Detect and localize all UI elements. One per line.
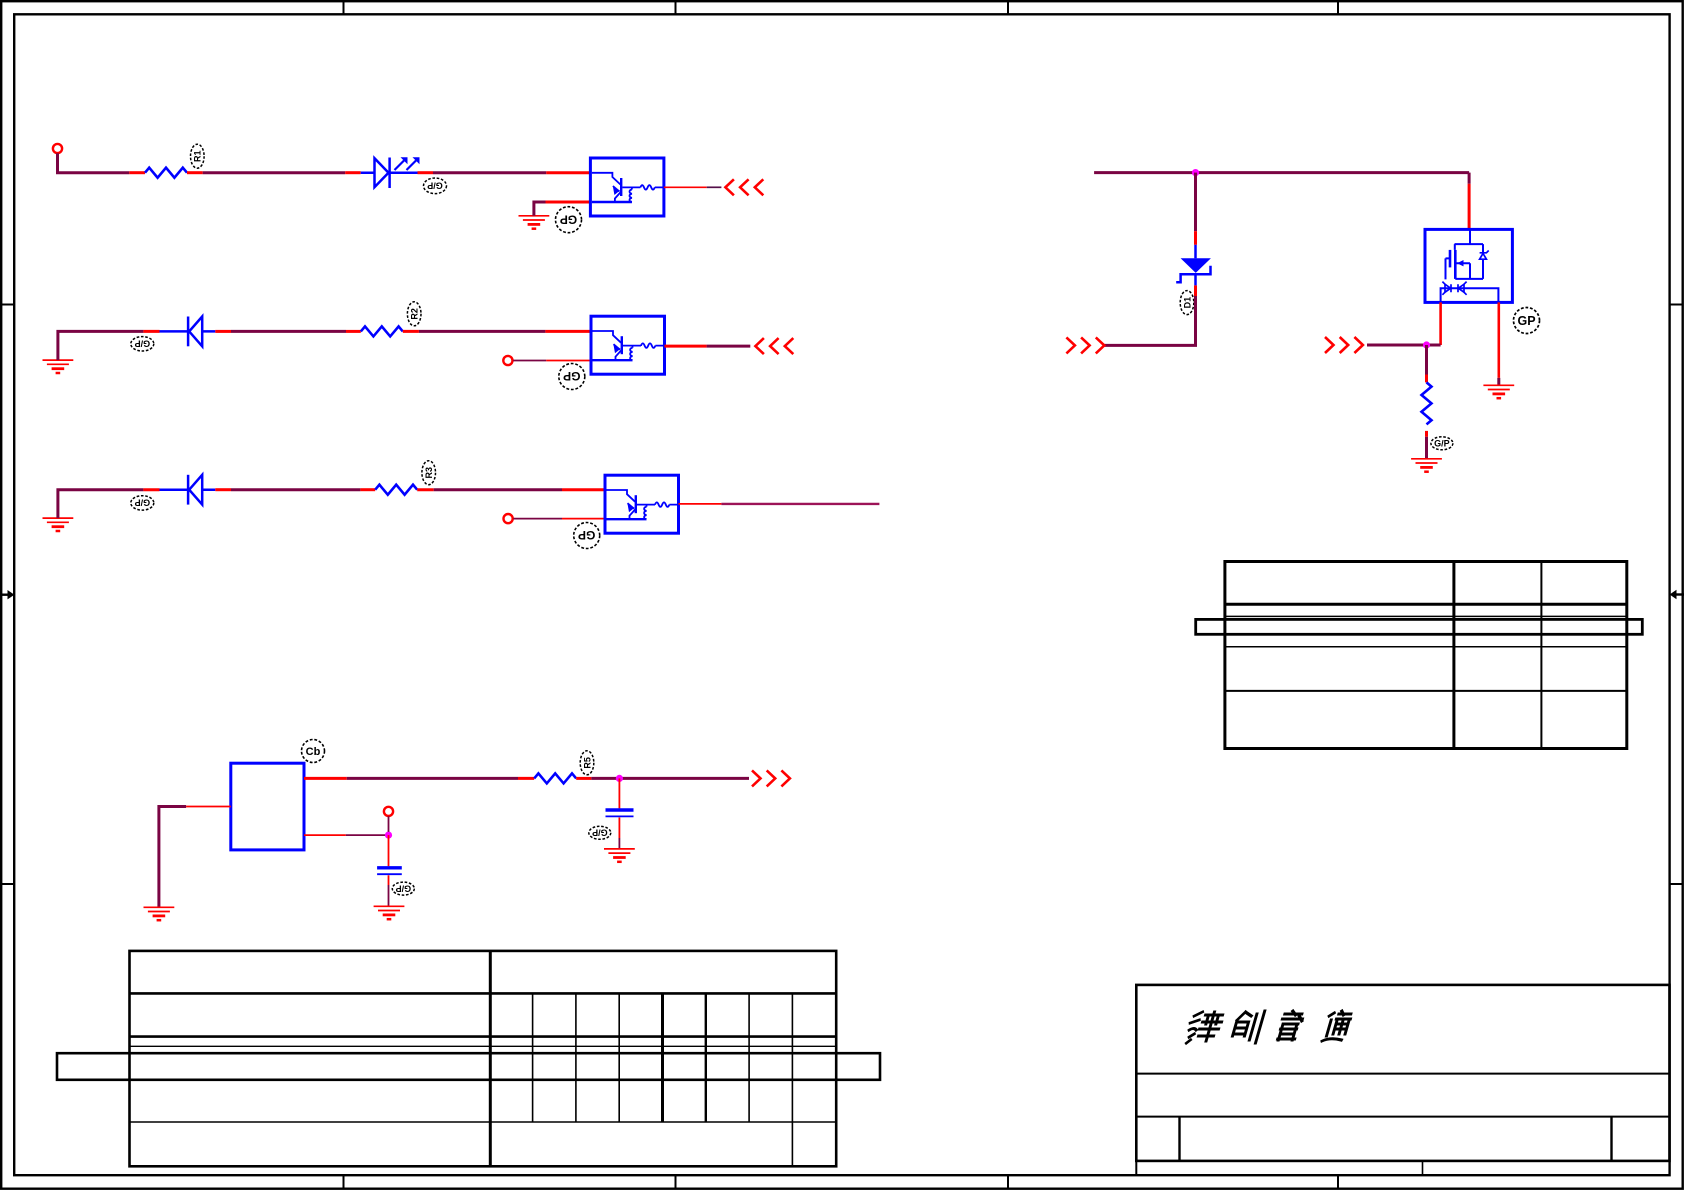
port chevrons bbox=[1066, 337, 1104, 353]
wire bbox=[159, 807, 186, 908]
revision table upper-right bbox=[1196, 562, 1643, 749]
wire bbox=[419, 330, 546, 333]
wire bbox=[1104, 296, 1195, 345]
optocoupler U1 bbox=[590, 158, 664, 216]
svg-text:R5: R5 bbox=[582, 757, 592, 769]
wire bbox=[388, 875, 390, 885]
wire bbox=[1468, 173, 1471, 184]
wire bbox=[664, 186, 707, 188]
wire bbox=[576, 777, 591, 780]
port chevrons bbox=[725, 179, 763, 195]
revision table bottom-left bbox=[57, 951, 880, 1166]
wire bbox=[1367, 344, 1441, 347]
wire bbox=[1498, 302, 1501, 378]
svg-text:G/P: G/P bbox=[592, 828, 608, 838]
ground bbox=[43, 518, 74, 531]
wire bbox=[58, 490, 143, 518]
wire bbox=[304, 834, 346, 836]
wire bbox=[434, 488, 562, 491]
wire bbox=[1194, 285, 1197, 296]
wire bbox=[513, 360, 546, 362]
resistor R1 bbox=[145, 168, 187, 178]
wire bbox=[58, 153, 130, 172]
wire bbox=[562, 488, 605, 491]
label GP bbox=[1514, 308, 1540, 334]
wire bbox=[546, 360, 591, 362]
wire bbox=[534, 202, 546, 216]
wire bbox=[1425, 437, 1428, 459]
svg-text:GP: GP bbox=[560, 212, 577, 226]
wire bbox=[215, 488, 231, 491]
wire bbox=[304, 777, 347, 780]
wire bbox=[618, 838, 620, 849]
svg-text:G/P: G/P bbox=[135, 498, 151, 508]
ground bbox=[1483, 385, 1514, 398]
label R3 bbox=[422, 461, 436, 485]
resistor R3 bbox=[375, 485, 417, 495]
svg-text:GP: GP bbox=[563, 369, 580, 383]
wire bbox=[721, 503, 879, 505]
wire bbox=[518, 777, 534, 780]
junction node bbox=[1423, 341, 1430, 348]
company logo text bbox=[1185, 1011, 1353, 1043]
wire bbox=[562, 518, 605, 520]
wire bbox=[618, 818, 620, 839]
ground bbox=[604, 849, 635, 862]
wire bbox=[388, 885, 390, 906]
wire bbox=[1425, 375, 1428, 383]
optocoupler U2 bbox=[591, 316, 665, 374]
wire bbox=[618, 778, 620, 808]
wire bbox=[1194, 173, 1197, 232]
wire bbox=[679, 503, 722, 505]
label C2 bbox=[589, 826, 611, 839]
wire bbox=[513, 518, 562, 520]
diode D3 bbox=[160, 475, 216, 505]
label D3 bbox=[131, 496, 154, 510]
svg-text:GP: GP bbox=[1517, 314, 1535, 328]
svg-text:G/P: G/P bbox=[135, 338, 151, 348]
wire bbox=[346, 834, 389, 836]
regulator U4 bbox=[231, 763, 304, 850]
wire bbox=[591, 777, 749, 780]
label G/P bbox=[424, 178, 447, 194]
wire bbox=[58, 331, 143, 360]
wire bbox=[433, 171, 546, 174]
wire bbox=[1425, 431, 1428, 437]
label GP bbox=[574, 523, 600, 549]
port chevrons bbox=[752, 770, 790, 786]
svg-text:G/P: G/P bbox=[396, 883, 412, 893]
wire bbox=[215, 330, 231, 333]
wire bbox=[347, 777, 518, 780]
wire bbox=[203, 171, 346, 174]
wire bbox=[417, 488, 434, 491]
zener diode ZD1 bbox=[1176, 245, 1211, 286]
svg-text:G/P: G/P bbox=[427, 180, 443, 190]
wire bbox=[545, 330, 591, 333]
optocoupler U3 bbox=[605, 475, 679, 533]
svg-text:R1: R1 bbox=[193, 150, 203, 162]
junction node bbox=[616, 775, 623, 782]
wire bbox=[231, 488, 360, 491]
label U4 bbox=[302, 740, 325, 763]
wire bbox=[1468, 184, 1471, 230]
junction node bbox=[385, 832, 392, 839]
wire bbox=[345, 171, 361, 174]
wire bbox=[360, 488, 375, 491]
label GP bbox=[556, 207, 582, 233]
wire bbox=[346, 330, 361, 333]
label GP bbox=[559, 364, 585, 390]
svg-text:D1: D1 bbox=[1182, 297, 1192, 309]
wire bbox=[388, 835, 390, 866]
svg-text:R2: R2 bbox=[410, 308, 420, 320]
diode D2 bbox=[160, 317, 216, 347]
label R5 bbox=[580, 751, 594, 775]
label R1 bbox=[191, 144, 205, 168]
svg-text:GP: GP bbox=[578, 528, 595, 542]
ground bbox=[374, 906, 405, 919]
ground bbox=[1411, 459, 1442, 472]
ground bbox=[144, 907, 175, 920]
port chevrons bbox=[755, 338, 793, 354]
svg-text:R3: R3 bbox=[424, 467, 434, 479]
ground bbox=[43, 360, 74, 373]
node open terminal bbox=[503, 356, 512, 365]
wire bbox=[1439, 302, 1442, 345]
resistor R2 bbox=[361, 326, 403, 336]
capacitor C2 bbox=[606, 808, 634, 811]
title block bbox=[1136, 985, 1669, 1175]
wire bbox=[231, 330, 346, 333]
svg-text:G/P: G/P bbox=[1434, 439, 1450, 449]
junction node bbox=[1192, 169, 1199, 176]
wire power rail bbox=[1094, 171, 1469, 174]
wire bbox=[143, 330, 159, 333]
svg-text:Cb: Cb bbox=[306, 746, 321, 758]
wire bbox=[418, 171, 434, 174]
wire bbox=[186, 806, 231, 808]
ground bbox=[519, 216, 550, 229]
wire bbox=[546, 171, 590, 174]
wire bbox=[403, 330, 419, 333]
port chevrons bbox=[1325, 337, 1363, 353]
label R2 bbox=[407, 302, 421, 326]
wire bbox=[546, 201, 591, 204]
LED D1 bbox=[361, 158, 418, 189]
node open terminal bbox=[504, 514, 513, 523]
wire bbox=[143, 488, 159, 491]
wire bbox=[707, 345, 751, 348]
label ZD1 bbox=[1180, 291, 1194, 315]
label G/P bbox=[1431, 437, 1453, 450]
wire bbox=[707, 186, 722, 188]
wire bbox=[665, 345, 707, 348]
capacitor C1 bbox=[377, 866, 402, 869]
wire bbox=[1194, 231, 1197, 245]
wire bbox=[1425, 345, 1428, 375]
label D2 bbox=[131, 337, 154, 351]
wire bbox=[129, 171, 145, 174]
wire bbox=[388, 816, 390, 832]
resistor R4 bbox=[1422, 382, 1432, 424]
wire bbox=[1497, 378, 1500, 385]
node open terminal bbox=[384, 807, 393, 816]
mosfet Q1 bbox=[1425, 229, 1512, 302]
label C1 bbox=[392, 882, 414, 895]
resistor R5 bbox=[534, 773, 576, 783]
wire bbox=[187, 171, 203, 174]
node input open terminal bbox=[53, 144, 62, 153]
